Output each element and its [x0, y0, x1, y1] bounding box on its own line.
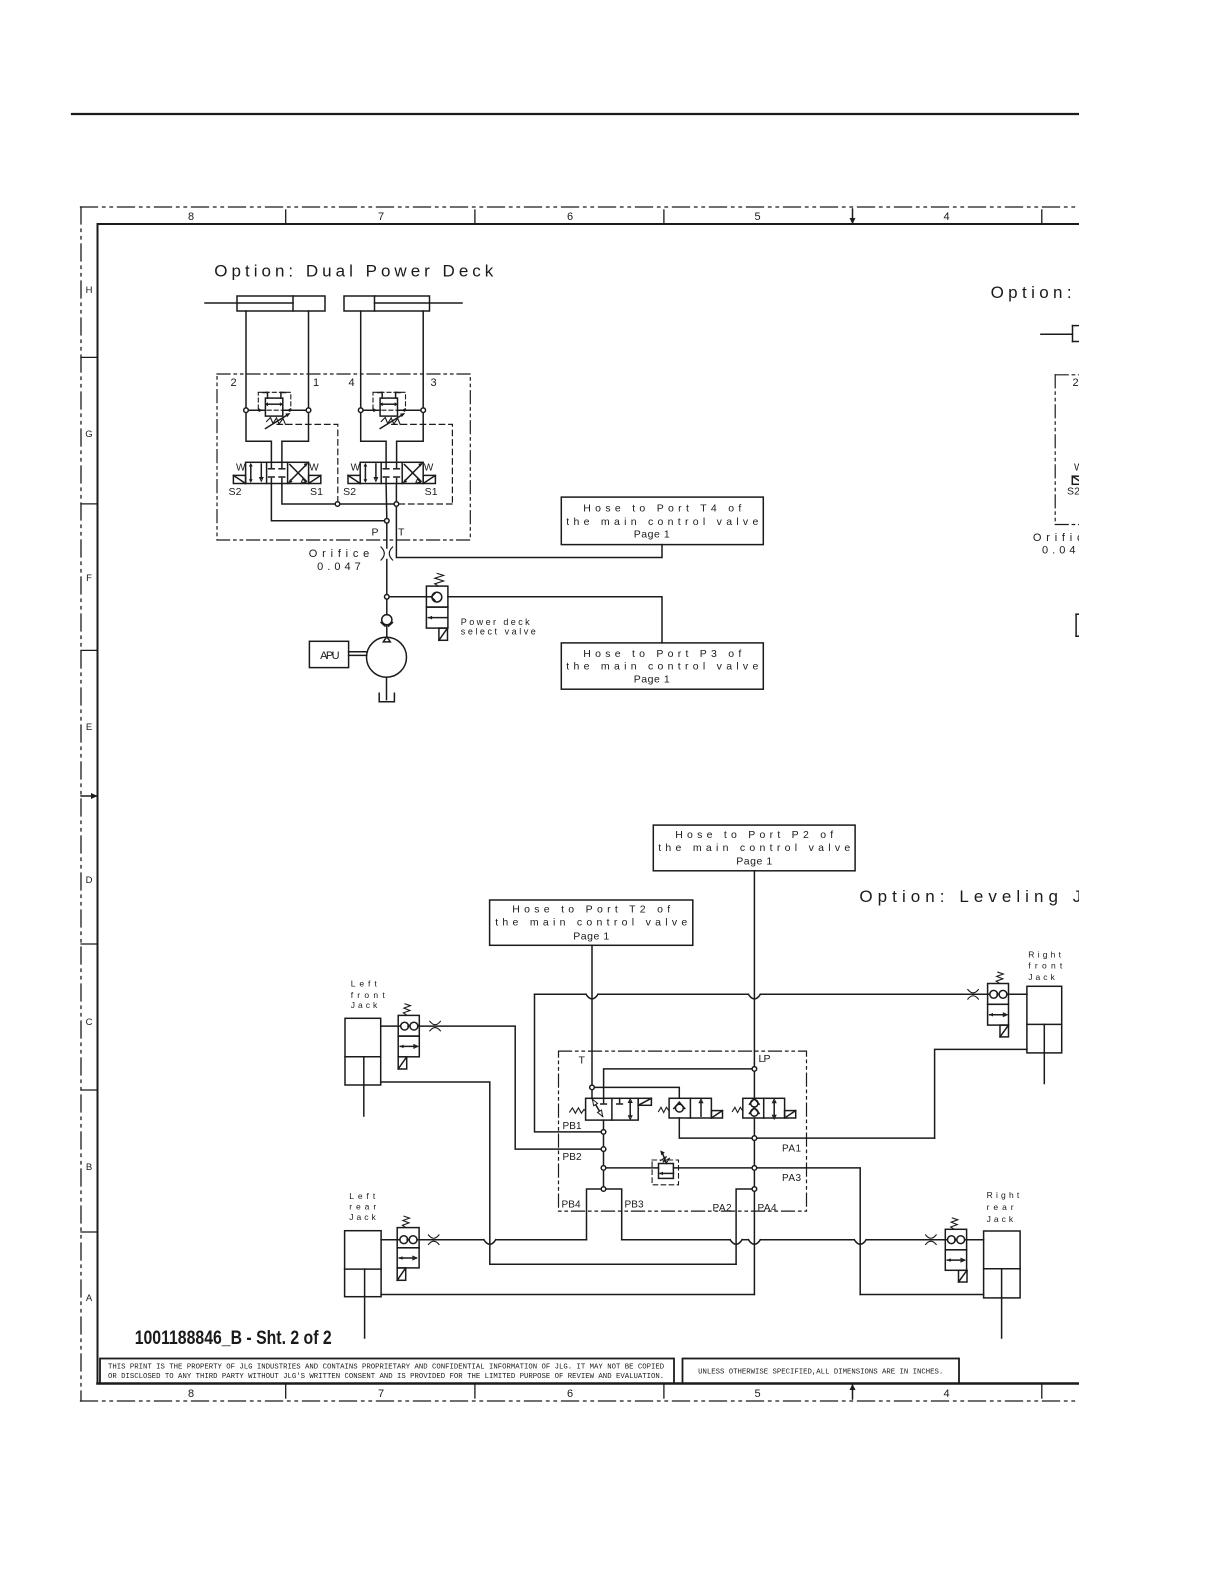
svg-text:PB1: PB1 — [563, 1121, 582, 1132]
svg-text:W: W — [351, 463, 361, 474]
node T circle — [590, 1085, 595, 1090]
svg-text:Page 1: Page 1 — [634, 529, 670, 541]
counterbalance valve CB1 (ports 2/1) — [244, 392, 311, 428]
grid numbers top — [188, 211, 950, 223]
wire: PA2 branch — [736, 1189, 752, 1264]
svg-text:S2: S2 — [229, 486, 242, 498]
left center arrow mark — [81, 793, 98, 799]
wire: PA1 line right to right front jack — [757, 1137, 935, 1139]
svg-text:the main control valve: the main control valve — [566, 660, 758, 672]
svg-text:Page 1: Page 1 — [573, 931, 609, 943]
grid zone ticks left — [81, 357, 98, 1232]
dimensions note box — [683, 1359, 960, 1384]
wire: cylinder B port 3 down — [422, 311, 424, 408]
holding valve right rear jack — [945, 1218, 967, 1282]
wire: V1 P port to P junction — [271, 484, 384, 521]
label Left rear Jack — [349, 1191, 376, 1222]
svg-text:8: 8 — [188, 1388, 194, 1400]
svg-text:2: 2 — [1073, 377, 1079, 389]
hose box T4 — [561, 497, 763, 544]
svg-text:7: 7 — [378, 1388, 384, 1400]
wire: PB1 riser — [535, 994, 601, 1132]
left front jack — [345, 1018, 398, 1116]
dash-dot boundary box power deck valves — [217, 374, 470, 540]
wire: PB1 to right front jack (long top line with hops) — [535, 994, 988, 999]
top rule — [72, 113, 1080, 115]
wire: T line down and right to T4 box — [396, 507, 662, 558]
svg-text:4: 4 — [348, 377, 354, 389]
svg-text:PA1: PA1 — [782, 1143, 801, 1154]
svg-text:6: 6 — [567, 211, 573, 223]
bottom center arrow mark — [850, 1384, 856, 1399]
pump circle — [367, 637, 407, 677]
svg-text:Power deck: Power deck — [461, 617, 530, 627]
svg-text:P: P — [372, 527, 379, 539]
grid tick marks top — [286, 210, 1042, 224]
wire: right front jack bottom to PA1 — [935, 1049, 1027, 1138]
wire: P line to orifice — [386, 523, 388, 548]
wire: orifice to pump junction — [386, 560, 388, 595]
wire: V2 T port down — [395, 484, 397, 502]
svg-text:Left: Left — [351, 979, 378, 989]
node PA1 circle — [752, 1136, 757, 1141]
svg-text:PA3: PA3 — [782, 1173, 801, 1184]
wire: T bus middle segment — [340, 503, 394, 505]
leveling valve D3 — [732, 1098, 795, 1119]
wire: cylinder A port 2 down — [245, 311, 247, 408]
svg-text:the main control valve: the main control valve — [658, 842, 850, 854]
svg-text:OR DISCLOSED TO ANY THIRD PART: OR DISCLOSED TO ANY THIRD PARTY WITHOUT … — [108, 1373, 664, 1381]
right rear jack — [967, 1231, 1021, 1338]
pump outlet triangle — [383, 637, 390, 642]
node PA24 circle — [752, 1187, 757, 1192]
svg-text:T: T — [579, 1055, 586, 1067]
svg-text:S2: S2 — [1067, 486, 1080, 498]
svg-text:8: 8 — [188, 211, 194, 223]
wire: left rear jack bottom to PA4 — [381, 1294, 754, 1296]
svg-text:Page 1: Page 1 — [634, 673, 670, 685]
svg-text:S2: S2 — [343, 486, 356, 498]
wire: PB34 tee — [587, 1189, 601, 1240]
node PB1 circle — [601, 1130, 606, 1135]
hose box P3 — [561, 643, 763, 689]
svg-text:S1: S1 — [310, 486, 323, 498]
wire: LP PA1 to PA3 — [753, 1141, 755, 1166]
label Right front Jack — [1028, 949, 1063, 982]
wire: select valve to P3 box — [448, 597, 662, 643]
wire: PB3 to right rear jack (with hops) — [622, 1240, 946, 1245]
holding valve right front jack — [988, 972, 1009, 1037]
wire: D1 bottom port stack — [603, 1120, 605, 1129]
leveling valve D1 — [570, 1098, 652, 1120]
svg-text:PA2: PA2 — [713, 1203, 732, 1214]
svg-text:4: 4 — [943, 1388, 949, 1400]
wire: pump to tank — [386, 677, 388, 699]
svg-text:3: 3 — [430, 377, 436, 389]
pilot dashed line CB1 to T bus — [277, 424, 338, 501]
wire: V1 T port to T bus — [282, 484, 335, 505]
svg-text:UNLESS OTHERWISE SPECIFIED,ALL: UNLESS OTHERWISE SPECIFIED,ALL DIMENSION… — [698, 1369, 943, 1377]
wire: LP PA3 to PA-node — [753, 1171, 755, 1187]
svg-text:D: D — [86, 875, 93, 886]
svg-text:7: 7 — [378, 211, 384, 223]
outer dash-dot border bottom — [81, 1400, 1079, 1402]
node pump junction circle — [385, 595, 390, 600]
wire: CB2 left to valve S2S1-R — [361, 413, 386, 463]
orifice left front — [430, 1021, 441, 1031]
svg-text:E: E — [86, 722, 92, 733]
check valve on pump line — [381, 599, 392, 637]
partial solenoid box (right section) — [1072, 476, 1084, 484]
wire: CB2 right to valve S2S1-R — [397, 413, 424, 463]
relief valve RV — [652, 1150, 678, 1184]
outer dash-dot border left — [80, 207, 82, 1401]
svg-text:4: 4 — [943, 211, 949, 223]
wire: LP into valve D3 — [753, 1072, 755, 1099]
hose box P2 — [653, 825, 855, 871]
partial hose box (right section) — [1076, 614, 1079, 636]
wire: PA3 line mid segment — [673, 1167, 751, 1169]
wire: left rear jack top line to PB4 — [419, 1240, 586, 1245]
svg-text:THIS PRINT IS THE PROPERTY OF: THIS PRINT IS THE PROPERTY OF JLG INDUST… — [108, 1364, 665, 1372]
wire: T line from T2 box to manifold — [591, 945, 593, 1085]
svg-text:PA4: PA4 — [758, 1203, 777, 1214]
svg-text:Left: Left — [349, 1191, 376, 1201]
hose box T2 — [490, 900, 693, 945]
wire: CB1 left to valve S2S1-L — [246, 413, 271, 463]
wire: stack PB1-PB2 — [603, 1135, 605, 1147]
svg-text:6: 6 — [567, 1388, 573, 1400]
orifice right front — [968, 990, 979, 1000]
node PA3-stack circle — [601, 1166, 606, 1171]
svg-text:W: W — [424, 463, 434, 474]
wire: PA4 = LP down — [753, 1192, 755, 1295]
svg-text:H: H — [86, 285, 93, 296]
wire: stack PB2-PA3 — [603, 1152, 605, 1166]
node LP top circle — [752, 1067, 757, 1072]
inner border left — [97, 224, 99, 1384]
orifice right rear — [926, 1235, 937, 1245]
wire: CB1 right to valve S2S1-L — [282, 413, 309, 463]
solenoid valve V2 right (S2/S1) — [343, 462, 438, 498]
svg-text:W: W — [236, 463, 246, 474]
svg-text:2: 2 — [230, 377, 236, 389]
left rear jack — [345, 1231, 398, 1338]
node T bus circle 2 — [394, 502, 399, 507]
svg-text:C: C — [86, 1017, 93, 1028]
orifice left rear — [428, 1235, 439, 1245]
wire: PB3 drop — [606, 1189, 622, 1240]
svg-text:G: G — [85, 429, 92, 440]
svg-text:5: 5 — [754, 1388, 760, 1400]
svg-text:Page 1: Page 1 — [736, 856, 772, 868]
svg-text:the main control valve: the main control valve — [495, 916, 687, 928]
svg-text:A: A — [86, 1293, 93, 1304]
svg-text:W: W — [309, 463, 319, 474]
wire: PB2 riser to left front jack top — [419, 1026, 601, 1149]
svg-text:PB2: PB2 — [563, 1152, 582, 1163]
svg-text:1001188846_B - Sht. 2 of 2: 1001188846_B - Sht. 2 of 2 — [135, 1328, 332, 1349]
grid numbers bottom — [188, 1388, 950, 1400]
svg-text:PB3: PB3 — [625, 1199, 644, 1210]
node PB34 circle — [601, 1187, 606, 1192]
outer dash-dot border top — [81, 206, 1079, 208]
svg-text:F: F — [86, 573, 92, 584]
svg-text:B: B — [86, 1162, 92, 1173]
manifold dash-dot box — [559, 1051, 807, 1211]
tank symbol — [379, 693, 394, 701]
leveling valve D2 — [659, 1098, 723, 1118]
svg-text:Option:: Option: — [991, 283, 1072, 302]
wire: PA3 line left segment — [606, 1167, 658, 1169]
node P junction circle — [385, 519, 390, 524]
wire: cylinder B port 4 down — [360, 311, 362, 408]
svg-text:T: T — [398, 527, 405, 539]
node PB2 circle — [601, 1147, 606, 1152]
wire: V2 P port down through P junction — [385, 484, 388, 519]
svg-text:the main control valve: the main control valve — [566, 516, 758, 528]
proprietary note box — [100, 1359, 674, 1384]
node PA3-LP circle — [752, 1166, 757, 1171]
svg-text:1: 1 — [313, 377, 319, 389]
label Left front Jack — [351, 979, 386, 1011]
APU box — [309, 641, 348, 667]
holding valve left rear jack — [397, 1216, 419, 1280]
svg-text:PB4: PB4 — [562, 1199, 581, 1210]
wire: cylinder A port 1 down — [308, 311, 310, 408]
wire: left front jack bottom to PA2 — [381, 1082, 736, 1264]
dash-dot partial box (right section) — [1055, 375, 1079, 525]
cylinder A (left power deck) — [205, 296, 325, 311]
orifice symbol on P line — [381, 547, 393, 560]
svg-text:LP: LP — [759, 1053, 771, 1065]
wire: junction to select valve — [389, 596, 431, 598]
wire: T node into valve D1 — [591, 1090, 593, 1098]
right front jack — [1009, 986, 1062, 1083]
wire: T node to valve D2 top — [595, 1087, 680, 1098]
svg-text:APU: APU — [320, 650, 340, 662]
cylinder B (right power deck) — [344, 296, 462, 311]
svg-text:5: 5 — [754, 211, 760, 223]
wire: PA3 line right to rear jack riser — [757, 1168, 860, 1295]
wire: D2 bottom to PA1 line — [679, 1118, 752, 1138]
label Right rear Jack — [987, 1190, 1020, 1224]
grid tick marks bottom — [286, 1384, 1042, 1399]
pilot dashed line CB2 to T bus — [392, 424, 453, 504]
wire: LP node to valve D1 port — [604, 1069, 752, 1098]
svg-text:S1: S1 — [425, 486, 438, 498]
port number labels 2 1 4 3 — [230, 377, 436, 389]
node T bus circle 1 — [335, 502, 340, 507]
pump shaft double line — [349, 651, 367, 653]
wire: LP valve D3 bottom to PA1 node — [753, 1118, 755, 1136]
counterbalance valve CB2 (ports 4/3) — [358, 392, 425, 428]
cylinder partial (right section) — [1041, 326, 1079, 342]
top center arrow mark — [850, 209, 856, 224]
inner border bottom — [98, 1382, 1080, 1385]
holding valve left front jack — [398, 1004, 419, 1069]
inner border top — [98, 223, 1080, 225]
solenoid valve V1 left (S2/S1) — [229, 462, 324, 498]
wire: stack PA3-PBnode — [603, 1171, 605, 1187]
wire: PA3 riser to right rear jack bottom — [860, 1294, 983, 1296]
grid letters left — [85, 285, 93, 1304]
power deck select valve — [426, 573, 448, 640]
wire: LP line from P2 box to manifold — [753, 871, 755, 1067]
